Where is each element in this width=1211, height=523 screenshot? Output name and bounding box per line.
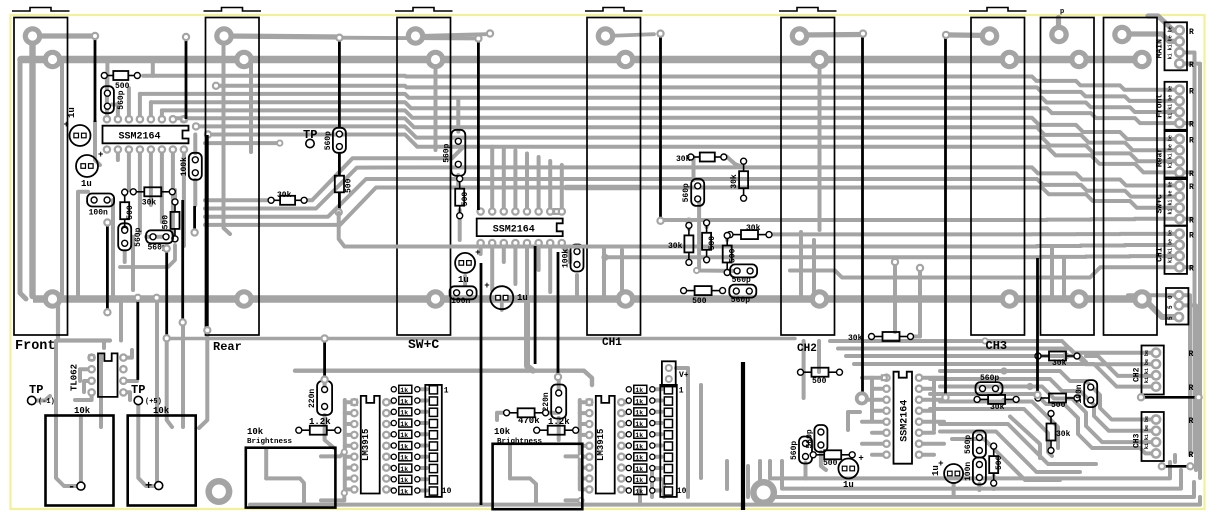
resistor 1k bbox=[626, 443, 631, 448]
black wire bottom right 1 bbox=[1141, 396, 1199, 399]
svg-text:220n: 220n bbox=[308, 389, 317, 408]
resistor 30k m bbox=[883, 332, 900, 341]
svg-text:1k: 1k bbox=[400, 387, 408, 394]
wire SW+C pad1 row bbox=[416, 34, 487, 36]
svg-text:R: R bbox=[1189, 417, 1194, 426]
wire pad row y59.5 thick bus bbox=[53, 56, 1143, 64]
svg-text:LM3915: LM3915 bbox=[596, 429, 606, 461]
svg-text:1k: 1k bbox=[400, 421, 408, 428]
wire black x186 bbox=[185, 37, 188, 119]
pad Front bottom bbox=[43, 289, 63, 309]
svg-text:SSM2164: SSM2164 bbox=[900, 400, 911, 442]
wire X1 inner verticals bbox=[1050, 247, 1054, 300]
wire bus row bbox=[151, 102, 1180, 123]
svg-text:R: R bbox=[1189, 216, 1194, 225]
connector block MAIN bbox=[1165, 22, 1188, 70]
svg-text:R: R bbox=[1189, 183, 1194, 192]
capacitor 100n r bbox=[1084, 380, 1097, 407]
svg-text:560p: 560p bbox=[790, 441, 799, 460]
resistor 1k bbox=[391, 432, 396, 437]
wire black x194 bbox=[193, 206, 196, 231]
svg-text:1u: 1u bbox=[517, 293, 528, 303]
resistor 30k a bbox=[700, 153, 715, 162]
resistor 500 e vert bbox=[702, 233, 711, 250]
wire black x339 mid bbox=[338, 153, 341, 176]
op-amp U1 SSM2164 bbox=[103, 115, 112, 124]
resistor 500 u vert bbox=[989, 456, 998, 473]
svg-text:Rear: Rear bbox=[213, 340, 242, 354]
wire thick left vertical bbox=[21, 56, 53, 64]
svg-text:CH1: CH1 bbox=[602, 337, 622, 349]
svg-text:ki ki be be: ki ki be be bbox=[1144, 416, 1150, 449]
svg-text:500: 500 bbox=[126, 205, 135, 220]
wire bus row bbox=[768, 232, 1180, 237]
resistor 500 mid bbox=[455, 189, 464, 206]
svg-text:Rear: Rear bbox=[1156, 148, 1165, 167]
resistor 500 q bbox=[1049, 394, 1066, 403]
pad CH2 bottom bbox=[810, 289, 830, 309]
svg-text:560p: 560p bbox=[442, 143, 451, 162]
svg-text:1k: 1k bbox=[635, 443, 643, 450]
svg-text:500: 500 bbox=[995, 455, 1004, 470]
wire 3pin stubs to rails bbox=[1179, 295, 1190, 310]
pad Front pin1 bbox=[23, 26, 43, 46]
wire CH1 inner verticals bbox=[602, 247, 606, 299]
svg-text:1.2k: 1.2k bbox=[548, 417, 570, 427]
capacitor 560p x bbox=[799, 437, 812, 464]
svg-text:R: R bbox=[1189, 121, 1194, 130]
wire bus row bbox=[596, 245, 1180, 247]
svg-text:1k: 1k bbox=[635, 477, 643, 484]
svg-text:1u: 1u bbox=[843, 480, 854, 490]
svg-text:SW+C: SW+C bbox=[408, 337, 439, 352]
svg-text:100n: 100n bbox=[451, 297, 470, 306]
svg-text:1k: 1k bbox=[635, 387, 643, 394]
svg-text:560p: 560p bbox=[324, 131, 333, 150]
svg-text:R: R bbox=[1189, 350, 1194, 359]
wire stair CH2 c4 bbox=[930, 364, 1156, 387]
pad X1 pin1 bbox=[1049, 25, 1069, 45]
svg-text:1k: 1k bbox=[635, 398, 643, 405]
connector block CH3 bottom bbox=[1142, 412, 1164, 461]
wire LM3915 right stubs bbox=[386, 400, 394, 404]
wire black x535 bbox=[534, 246, 537, 364]
connector strip 10 bbox=[425, 385, 442, 497]
wire right rail 3 bbox=[1188, 308, 1192, 455]
wire black x95 bbox=[94, 36, 97, 122]
resistor 500 h bbox=[695, 286, 712, 295]
resistor 1k bbox=[626, 432, 631, 437]
svg-text:1k: 1k bbox=[635, 421, 643, 428]
svg-text:(+5): (+5) bbox=[145, 398, 162, 406]
connector block CH1 bbox=[1165, 226, 1188, 274]
connector CH3 outline bbox=[971, 18, 1025, 336]
svg-text:1: 1 bbox=[679, 387, 684, 396]
connector X2 outline bbox=[1104, 18, 1158, 336]
svg-text:100n: 100n bbox=[89, 209, 108, 218]
wire bus row bbox=[470, 188, 1180, 208]
pad SW+C bottom bbox=[426, 289, 446, 309]
svg-text:ki ki be be: ki ki be be bbox=[1168, 135, 1174, 168]
wire right rail 1 bbox=[1193, 60, 1197, 452]
svg-text:1k: 1k bbox=[400, 443, 408, 450]
svg-text:+: + bbox=[475, 248, 480, 258]
resistor 30k s vert bbox=[1047, 424, 1056, 441]
wire pad1 Rear to right bbox=[224, 36, 341, 37]
svg-text:30k: 30k bbox=[848, 334, 863, 343]
resistor 1k bbox=[626, 477, 631, 482]
wire stair CH2 c1 bbox=[985, 341, 1156, 353]
resistor 470k bbox=[518, 408, 535, 417]
svg-text:30k: 30k bbox=[142, 198, 157, 207]
resistor 1k bbox=[391, 465, 396, 470]
connector SW+C outline bbox=[397, 18, 451, 336]
svg-text:1k: 1k bbox=[400, 488, 408, 495]
svg-text:ki ki be be: ki ki be be bbox=[1168, 86, 1174, 119]
wire stair CH3 c3 bbox=[1030, 387, 1156, 443]
connector CH3 top tab bbox=[969, 8, 1027, 12]
pad Rear bottom bbox=[234, 289, 254, 309]
svg-text:MAIN: MAIN bbox=[1156, 39, 1165, 58]
wire thick IC2 SE elbows bbox=[562, 243, 570, 262]
wire bottom L3 bbox=[760, 461, 1194, 497]
wire X2 pad1 right bbox=[1122, 34, 1180, 41]
wire bottom L1 bbox=[770, 461, 1170, 478]
wire black x481 bbox=[480, 263, 483, 505]
wire MAIN c4 elbow to rail bbox=[1183, 64, 1200, 75]
capacitor 560p left bbox=[101, 86, 114, 113]
resistor 30k rear gap bbox=[280, 196, 295, 205]
svg-text:R: R bbox=[1189, 87, 1194, 96]
svg-text:TP: TP bbox=[131, 383, 145, 397]
connector CH1 top tab bbox=[585, 8, 643, 12]
resistor 1k bbox=[391, 387, 396, 392]
wire drops below SSM2164 #1 bbox=[116, 150, 120, 161]
svg-text:R: R bbox=[1189, 61, 1194, 70]
svg-text:30k: 30k bbox=[676, 155, 691, 164]
svg-text:1k: 1k bbox=[635, 432, 643, 439]
resistor 500 w bbox=[812, 368, 829, 377]
wire bus row bbox=[140, 94, 1180, 112]
svg-text:1k: 1k bbox=[635, 488, 643, 495]
mounting hole left bbox=[205, 478, 232, 505]
svg-text:500: 500 bbox=[729, 248, 738, 263]
resistor 1k bbox=[391, 477, 396, 482]
svg-text:30k: 30k bbox=[1052, 359, 1067, 368]
wire bus row bbox=[208, 135, 1180, 173]
capacitor 220n 1 bbox=[317, 381, 332, 415]
svg-text:CH2: CH2 bbox=[1133, 367, 1142, 382]
svg-text:560p: 560p bbox=[117, 90, 126, 109]
capacitor 560p h bbox=[146, 230, 173, 243]
capacitor 560p mid bbox=[451, 130, 465, 176]
svg-text:R: R bbox=[1189, 231, 1194, 240]
wire black x207 bbox=[206, 135, 209, 329]
svg-text:30k: 30k bbox=[1056, 430, 1071, 439]
svg-text:1k: 1k bbox=[635, 410, 643, 417]
svg-text:TL062: TL062 bbox=[70, 364, 80, 391]
svg-text:LM3915: LM3915 bbox=[361, 429, 371, 461]
wire CH2 pad2 vertical bbox=[818, 60, 822, 230]
svg-text:500: 500 bbox=[692, 297, 707, 306]
svg-text:500: 500 bbox=[461, 192, 470, 207]
wire brightness box2 internals bbox=[508, 445, 512, 478]
wire LM3915 left riser bbox=[343, 400, 347, 488]
wire black x157top bbox=[152, 294, 160, 302]
V+ strip bbox=[662, 361, 676, 386]
svg-text:1u: 1u bbox=[458, 275, 469, 285]
svg-text:560p: 560p bbox=[964, 435, 973, 454]
resistor 1k bbox=[626, 465, 631, 470]
resistor 500 vert #2 bbox=[171, 212, 180, 229]
wire y340 left segs bbox=[58, 338, 110, 342]
wire CH3 pad1 left bbox=[946, 32, 989, 38]
wire x339 gray below bbox=[339, 213, 596, 247]
svg-text:ki ki be be: ki ki be be bbox=[1168, 181, 1174, 214]
wire stair CH3 c1 bbox=[1004, 371, 1156, 420]
ic LM3915 bbox=[585, 398, 594, 407]
wire SW+C pad2 vertical bbox=[434, 60, 438, 150]
resistor 1k bbox=[391, 398, 396, 403]
svg-text:100k: 100k bbox=[180, 157, 189, 176]
wire MAIN c3 elbow to rail bbox=[1183, 53, 1195, 63]
svg-text:500: 500 bbox=[162, 215, 171, 230]
wire right rail 2 bbox=[1198, 70, 1202, 478]
resistor 30k left bbox=[144, 187, 161, 196]
resistor 30k p bbox=[988, 395, 1005, 404]
svg-text:Front: Front bbox=[1156, 94, 1165, 118]
svg-text:560p: 560p bbox=[731, 296, 750, 305]
wire 470k link bbox=[497, 413, 505, 420]
svg-text:1.2k: 1.2k bbox=[309, 417, 331, 427]
wire black x862 bbox=[861, 34, 864, 396]
svg-text:Brightness: Brightness bbox=[247, 438, 293, 446]
wire verticals into jack boxes bbox=[56, 341, 76, 486]
resistor 1k bbox=[626, 454, 631, 459]
resistor 1k bbox=[626, 398, 631, 403]
svg-text:100n: 100n bbox=[964, 462, 973, 481]
svg-text:1u: 1u bbox=[931, 465, 941, 476]
resistor 1k bbox=[391, 454, 396, 459]
svg-text:560p: 560p bbox=[980, 374, 999, 383]
wire black x137 bbox=[136, 299, 139, 380]
wire black x660 bbox=[659, 34, 662, 219]
wire TL062 stubs bbox=[80, 369, 92, 381]
capacitor 220n 2 bbox=[551, 385, 566, 419]
wire drops to SSM2164#2 pins from bus bbox=[490, 147, 494, 212]
wire black x558 bbox=[557, 252, 560, 377]
pad CH3 bottom bbox=[1000, 289, 1020, 309]
svg-text:1k: 1k bbox=[400, 466, 408, 473]
wire bus row bbox=[143, 76, 1180, 90]
wire black x478 to U2 pin1 bbox=[477, 39, 480, 210]
wire pad1 to via (95,36) bbox=[33, 33, 96, 38]
connector CH2 outline bbox=[781, 18, 835, 336]
capacitor elco 1u br2 bbox=[944, 464, 963, 483]
connector Front top tab bbox=[12, 8, 70, 12]
capacitor elco 1u mid2 bbox=[490, 286, 513, 309]
pad X2 bottom bbox=[1132, 289, 1152, 309]
pad Rear pin1 bbox=[214, 26, 234, 46]
connector block Front bbox=[1165, 82, 1188, 130]
resistor 30k d vert bbox=[684, 235, 693, 252]
svg-text:R: R bbox=[1189, 384, 1194, 393]
mounting hole right bbox=[750, 479, 777, 506]
svg-text:0: 0 bbox=[1167, 295, 1174, 299]
svg-text:SW+C: SW+C bbox=[1156, 194, 1165, 213]
wire black x166 bbox=[165, 250, 168, 338]
resistor 500 z bbox=[824, 450, 841, 459]
wire left cluster to bus bbox=[78, 192, 88, 299]
svg-text:10k: 10k bbox=[494, 427, 511, 437]
wire thick bottom bus y299 bbox=[33, 295, 1142, 303]
capacitor elco 1u mid1 bbox=[455, 253, 475, 273]
wire bus row bbox=[605, 256, 1180, 257]
wire V+ strip feed bbox=[295, 371, 592, 385]
wire right rail 4 bbox=[1194, 316, 1198, 470]
wire LM3915 right stubs bbox=[621, 400, 629, 404]
wire drops to SSM2164 pins bbox=[105, 76, 109, 120]
connector Rear top tab bbox=[204, 8, 262, 12]
wire MAIN c1 from top edge bbox=[1148, 16, 1180, 30]
op-amp TL062 bbox=[87, 353, 96, 362]
svg-text:ki ki be be: ki ki be be bbox=[1144, 350, 1150, 383]
wire stair CH2 c2 bbox=[930, 349, 1156, 365]
wire 30k cluster links bbox=[692, 157, 696, 180]
svg-text:V+: V+ bbox=[679, 371, 689, 380]
wire Front inner vertical bbox=[60, 61, 64, 297]
resistor 100k rot bbox=[189, 153, 202, 180]
svg-text:1k: 1k bbox=[400, 432, 408, 439]
capacitor 100k mid bbox=[571, 245, 584, 272]
wire X1 pad1 stem up bbox=[1056, 18, 1061, 35]
wire block stub bbox=[1183, 170, 1195, 174]
wire thick seg row183 bbox=[566, 185, 640, 191]
svg-text:+: + bbox=[64, 120, 69, 130]
wire U3 risers bbox=[870, 378, 874, 420]
wire Rear pad1 vertical bbox=[224, 36, 231, 234]
wire bus row bbox=[661, 219, 1180, 220]
wire black x339 upper bbox=[338, 39, 341, 128]
pad X1 pin2 bbox=[1069, 50, 1089, 70]
svg-text:R: R bbox=[1189, 137, 1194, 146]
svg-text:1k: 1k bbox=[635, 466, 643, 473]
wire bus row bbox=[173, 118, 1180, 150]
svg-text:R: R bbox=[1189, 451, 1194, 460]
svg-text:560p: 560p bbox=[682, 183, 691, 202]
svg-text:R: R bbox=[1189, 28, 1194, 37]
connector SW+C top tab bbox=[395, 8, 453, 12]
wire X2 pad to 3pin pin3 thick bbox=[1142, 297, 1179, 317]
svg-text:CH3: CH3 bbox=[986, 339, 1008, 353]
svg-text:1k: 1k bbox=[400, 410, 408, 417]
wire to 3pin block c1 bbox=[1128, 293, 1179, 297]
wire block stub bbox=[1183, 265, 1195, 269]
svg-text:500: 500 bbox=[345, 178, 354, 193]
pad CH2 pin2 bbox=[810, 50, 830, 70]
resistor 30k b vert bbox=[739, 171, 748, 188]
wire right low verticals bbox=[1173, 455, 1177, 462]
connector CH2 top tab bbox=[779, 8, 837, 12]
wire CH2 bottom verticals bbox=[802, 341, 806, 398]
svg-text:1k: 1k bbox=[400, 477, 408, 484]
wire bus row bbox=[470, 167, 1180, 185]
resistor 1.2k 2 bbox=[548, 426, 565, 435]
wire stair lower rows bbox=[1004, 402, 1058, 449]
wire CH2 inner verticals bbox=[799, 232, 803, 299]
wire bus row bbox=[216, 86, 1180, 101]
connector block 3pin bbox=[1166, 288, 1188, 325]
pad CH1 pin1 bbox=[596, 26, 616, 46]
svg-text:560p: 560p bbox=[732, 276, 751, 285]
wire thick drop x527 bbox=[527, 299, 533, 371]
connector block Rear bbox=[1165, 131, 1188, 179]
pad CH2 pin1 bbox=[790, 26, 810, 46]
capacitor 560p o bbox=[976, 382, 1003, 395]
svg-text:+: + bbox=[98, 150, 103, 160]
resistor 1k bbox=[391, 420, 396, 425]
resistor 30k n bbox=[1049, 352, 1066, 361]
pad CH1 pin2 bbox=[616, 50, 636, 70]
svg-text:CH2: CH2 bbox=[797, 343, 817, 355]
resistor 1k bbox=[626, 488, 631, 493]
wire bus row bbox=[162, 110, 1180, 139]
wire block stub bbox=[1183, 217, 1195, 221]
resistor 500 tp3 bbox=[335, 176, 344, 193]
wire CH2-CH3 gap verticals bbox=[893, 262, 897, 332]
resistor 1k bbox=[391, 443, 396, 448]
svg-text:R: R bbox=[1189, 265, 1194, 274]
wire below SSM2164#2 bbox=[479, 243, 483, 254]
svg-text:1k: 1k bbox=[400, 455, 408, 462]
wire black x324 bbox=[323, 340, 326, 380]
wire block stub bbox=[1183, 62, 1195, 66]
svg-text:ki ki be be: ki ki be be bbox=[1168, 26, 1174, 59]
connector strip 10 bbox=[660, 385, 677, 497]
svg-text:30k: 30k bbox=[990, 403, 1005, 412]
op-amp U3 SSM2164 vertical bbox=[894, 372, 913, 464]
svg-text:TP: TP bbox=[29, 383, 43, 397]
svg-text:1u: 1u bbox=[67, 107, 77, 118]
svg-text:470k: 470k bbox=[518, 416, 540, 426]
svg-text:ki ki be be: ki ki be be bbox=[1168, 230, 1174, 263]
wire via340 to via478 bbox=[340, 36, 478, 41]
pad X2 pin2 bbox=[1132, 50, 1152, 70]
jack box minus bbox=[46, 416, 114, 506]
svg-text:1u: 1u bbox=[81, 179, 92, 189]
resistor 1k bbox=[391, 409, 396, 414]
wire 1k to strip stubs bbox=[418, 387, 427, 391]
svg-text:220n: 220n bbox=[542, 392, 551, 411]
wire x701 drop bbox=[699, 385, 703, 478]
resistor 500 top-left bbox=[113, 71, 128, 80]
wire stair CH3 c2 bbox=[930, 379, 1156, 431]
wire rows y341-409 left extensions bbox=[830, 339, 985, 343]
op-amp U2 SSM2164 bbox=[476, 207, 485, 216]
wire block stub bbox=[1183, 121, 1195, 125]
svg-text:5: 5 bbox=[1167, 305, 1174, 309]
wire stubs SSM2164#3 right bbox=[919, 376, 944, 380]
black wire bottom right 2 bbox=[1162, 465, 1191, 468]
svg-text:CH1: CH1 bbox=[1156, 247, 1165, 262]
svg-text:30k: 30k bbox=[668, 242, 683, 251]
capacitor elco 1u #2 bbox=[76, 155, 98, 177]
connector X1 outline bbox=[1041, 18, 1095, 336]
connector Front outline bbox=[14, 18, 68, 336]
capacitor elco 1u br bbox=[838, 459, 858, 479]
svg-text:(-1): (-1) bbox=[38, 398, 55, 406]
wire black x1037 bbox=[1036, 258, 1039, 393]
